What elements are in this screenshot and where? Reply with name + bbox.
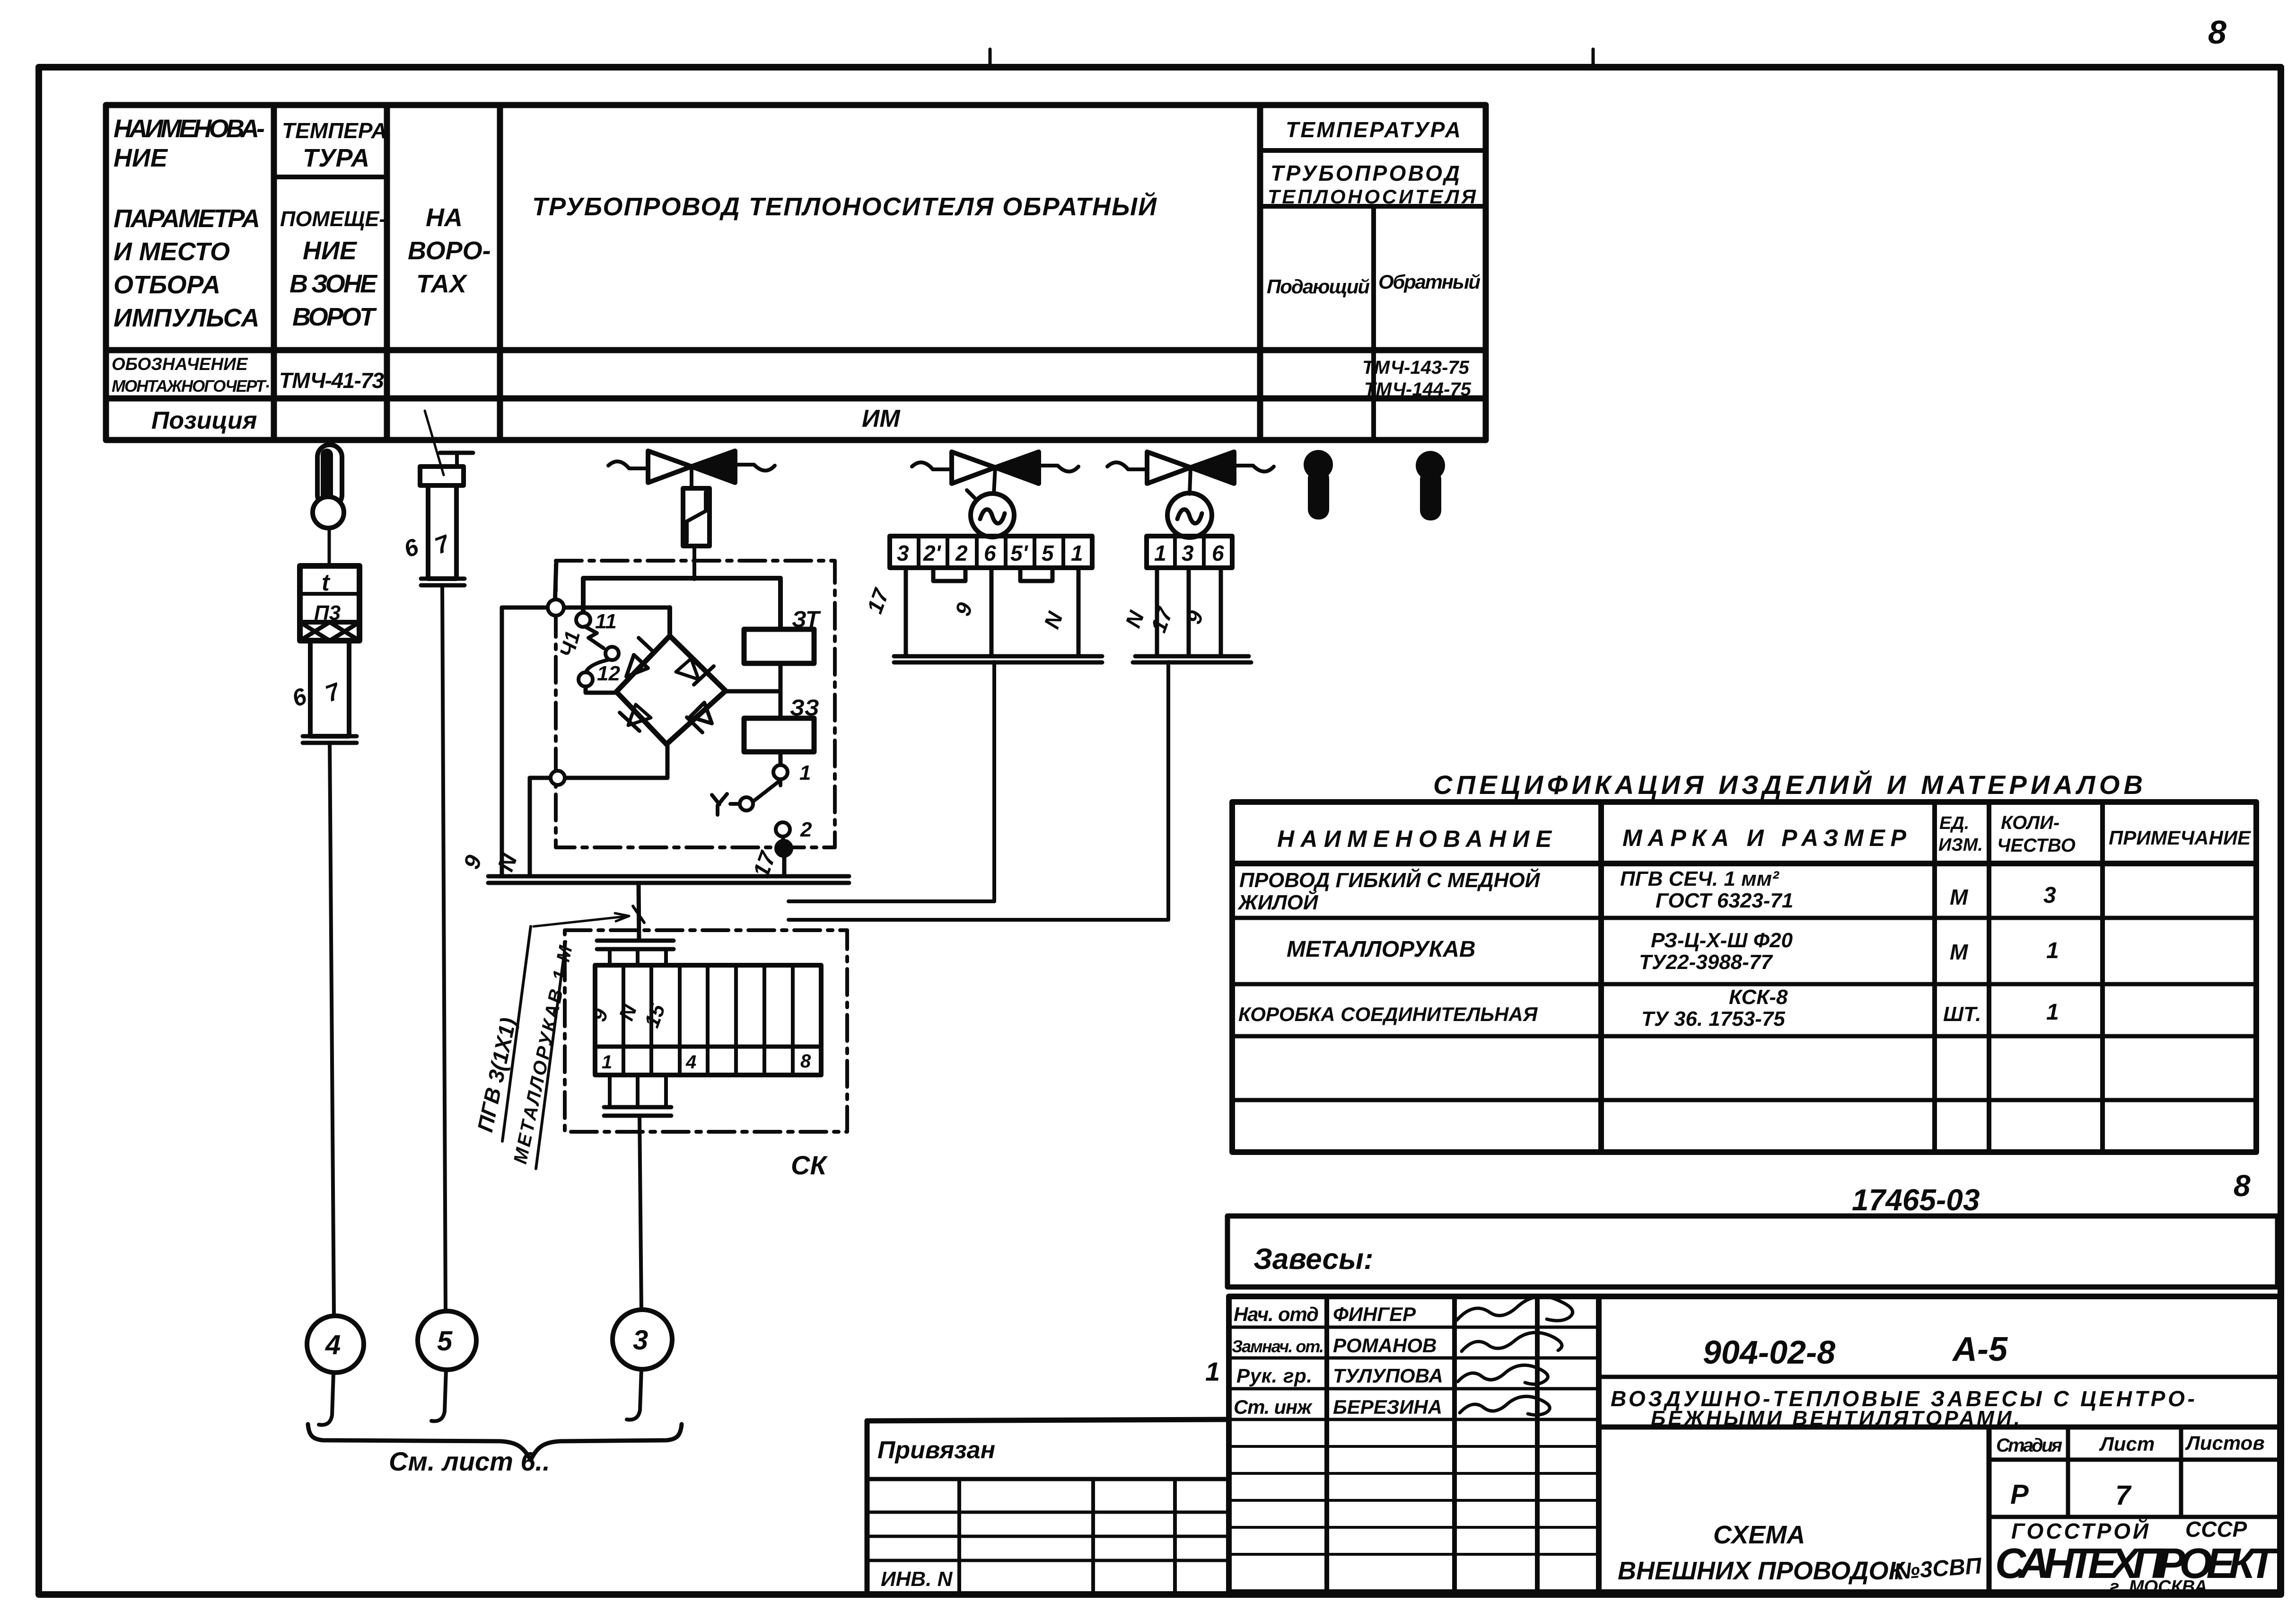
svg-text:1: 1 bbox=[799, 761, 811, 784]
svg-text:6: 6 bbox=[289, 682, 310, 712]
svg-text:РЗ-Ц-Х-Ш Ф20: РЗ-Ц-Х-Ш Ф20 bbox=[1651, 929, 1793, 952]
svg-text:1: 1 bbox=[1205, 1357, 1220, 1386]
svg-text:ГОСТ 6323-71: ГОСТ 6323-71 bbox=[1656, 889, 1793, 912]
svg-text:КСК-8: КСК-8 bbox=[1729, 986, 1788, 1009]
svg-text:3: 3 bbox=[1182, 541, 1194, 565]
svg-text:2': 2' bbox=[923, 541, 942, 565]
svg-text:МЕТАЛЛОРУКАВ: МЕТАЛЛОРУКАВ bbox=[1287, 937, 1476, 962]
svg-text:Ч1: Ч1 bbox=[555, 628, 585, 660]
svg-text:904-02-8: 904-02-8 bbox=[1703, 1334, 1835, 1371]
svg-text:9: 9 bbox=[459, 852, 487, 872]
svg-text:3: 3 bbox=[2043, 883, 2056, 908]
svg-text:Подающий: Подающий bbox=[1267, 275, 1370, 298]
svg-text:ТМЧ-41-73: ТМЧ-41-73 bbox=[279, 368, 384, 393]
svg-text:КОРОБКА СОЕДИНИТЕЛЬНАЯ: КОРОБКА СОЕДИНИТЕЛЬНАЯ bbox=[1238, 1003, 1538, 1025]
svg-text:ЖИЛОЙ: ЖИЛОЙ bbox=[1237, 890, 1319, 914]
svg-text:3: 3 bbox=[633, 1325, 648, 1356]
svg-text:1: 1 bbox=[2046, 1000, 2059, 1025]
svg-text:Обратный: Обратный bbox=[1378, 271, 1481, 293]
svg-text:НИЕ: НИЕ bbox=[303, 237, 358, 265]
svg-text:ИНВ. N: ИНВ. N bbox=[881, 1568, 953, 1591]
svg-text:Листов: Листов bbox=[2185, 1432, 2265, 1454]
svg-text:ВОРОТ: ВОРОТ bbox=[292, 303, 377, 331]
svg-text:Р: Р bbox=[2010, 1479, 2029, 1510]
svg-text:ТМЧ-143-75: ТМЧ-143-75 bbox=[1362, 357, 1470, 378]
svg-text:ПРОВОД ГИБКИЙ С МЕДНОЙ: ПРОВОД ГИБКИЙ С МЕДНОЙ bbox=[1239, 868, 1541, 892]
svg-text:5': 5' bbox=[1010, 541, 1029, 565]
svg-text:1: 1 bbox=[1154, 541, 1166, 565]
svg-text:2: 2 bbox=[955, 541, 968, 565]
svg-text:7: 7 bbox=[322, 678, 344, 707]
svg-text:5: 5 bbox=[437, 1326, 453, 1357]
svg-text:ВОРО-: ВОРО- bbox=[408, 237, 491, 265]
svg-text:N: N bbox=[1121, 608, 1149, 631]
svg-text:15: 15 bbox=[640, 1001, 670, 1031]
svg-text:Рук. гр.: Рук. гр. bbox=[1236, 1365, 1312, 1387]
svg-text:СХЕМА: СХЕМА bbox=[1713, 1521, 1805, 1549]
svg-text:г. МОСКВА: г. МОСКВА bbox=[2110, 1577, 2207, 1597]
svg-text:СССР: СССР bbox=[2185, 1517, 2247, 1542]
svg-text:НИЕ: НИЕ bbox=[114, 144, 168, 172]
svg-text:6: 6 bbox=[1212, 541, 1224, 565]
svg-text:М: М bbox=[1950, 885, 1969, 909]
svg-text:ИМПУЛЬСА: ИМПУЛЬСА bbox=[114, 304, 259, 332]
svg-text:БЕРЕЗИНА: БЕРЕЗИНА bbox=[1333, 1396, 1442, 1418]
svg-text:ТАХ: ТАХ bbox=[416, 270, 468, 298]
svg-text:17465-03: 17465-03 bbox=[1852, 1183, 1980, 1217]
svg-text:ТРУБОПРОВОД ТЕПЛОНОСИТЕЛЯ ОБРА: ТРУБОПРОВОД ТЕПЛОНОСИТЕЛЯ ОБРАТНЫЙ bbox=[532, 192, 1157, 221]
svg-text:МОНТАЖНОГОЧЕРТ·: МОНТАЖНОГОЧЕРТ· bbox=[112, 377, 270, 396]
svg-text:ТУЛУПОВА: ТУЛУПОВА bbox=[1333, 1365, 1443, 1387]
svg-text:7: 7 bbox=[431, 529, 454, 559]
svg-text:11: 11 bbox=[595, 610, 617, 633]
svg-text:И МЕСТО: И МЕСТО bbox=[114, 238, 230, 266]
svg-text:М: М bbox=[1950, 940, 1969, 964]
svg-text:БЕЖНЫМИ ВЕНТИЛЯТОРАМИ.: БЕЖНЫМИ ВЕНТИЛЯТОРАМИ. bbox=[1651, 1407, 2020, 1430]
svg-text:N: N bbox=[1039, 608, 1068, 632]
svg-text:МАРКА И РАЗМЕР: МАРКА И РАЗМЕР bbox=[1622, 825, 1907, 851]
svg-text:Лист: Лист bbox=[2099, 1433, 2155, 1455]
svg-text:СПЕЦИФИКАЦИЯ ИЗДЕЛИЙ И МАТЕ: СПЕЦИФИКАЦИЯ ИЗДЕЛИЙ И МАТЕРИАЛОВ bbox=[1433, 770, 2143, 800]
svg-text:НА: НА bbox=[426, 203, 463, 232]
svg-text:Ст. инж: Ст. инж bbox=[1234, 1396, 1313, 1418]
svg-text:Замнач. от.: Замнач. от. bbox=[1232, 1337, 1324, 1356]
svg-text:ЧЕСТВО: ЧЕСТВО bbox=[1997, 835, 2076, 856]
svg-text:ПОМЕЩЕ-: ПОМЕЩЕ- bbox=[280, 207, 386, 231]
svg-text:6: 6 bbox=[401, 533, 422, 563]
svg-text:4: 4 bbox=[325, 1330, 341, 1360]
svg-text:N: N bbox=[493, 850, 523, 875]
svg-text:ПАРАМЕТРА: ПАРАМЕТРА bbox=[114, 204, 260, 233]
svg-text:2: 2 bbox=[800, 818, 812, 841]
svg-text:КОЛИ-: КОЛИ- bbox=[2001, 812, 2059, 833]
svg-text:9: 9 bbox=[1181, 607, 1209, 627]
svg-text:№3СВП: №3СВП bbox=[1893, 1553, 1983, 1585]
svg-text:ФИНГЕР: ФИНГЕР bbox=[1333, 1303, 1416, 1325]
svg-text:П3: П3 bbox=[314, 601, 341, 625]
svg-text:ТЕМПЕРАТУРА: ТЕМПЕРАТУРА bbox=[1286, 117, 1461, 142]
svg-text:Нач. отд: Нач. отд bbox=[1234, 1303, 1319, 1325]
svg-text:12: 12 bbox=[597, 662, 620, 685]
svg-text:8: 8 bbox=[2234, 1169, 2251, 1203]
svg-text:ТУ22-3988-77: ТУ22-3988-77 bbox=[1639, 951, 1773, 974]
svg-text:8: 8 bbox=[800, 1051, 811, 1072]
svg-text:РОМАНОВ: РОМАНОВ bbox=[1333, 1334, 1437, 1357]
svg-text:ШТ.: ШТ. bbox=[1943, 1003, 1981, 1026]
svg-text:9: 9 bbox=[950, 599, 978, 619]
svg-text:ИМ: ИМ bbox=[862, 405, 901, 432]
svg-text:См. лист 6..: См. лист 6.. bbox=[389, 1446, 550, 1476]
svg-text:Позиция: Позиция bbox=[151, 407, 257, 434]
svg-text:9: 9 bbox=[587, 1005, 613, 1024]
svg-text:7: 7 bbox=[2115, 1480, 2132, 1511]
svg-text:ВНЕШНИХ ПРОВОДОК: ВНЕШНИХ ПРОВОДОК bbox=[1618, 1557, 1906, 1585]
svg-text:1: 1 bbox=[2046, 938, 2059, 963]
svg-text:ТУРА: ТУРА bbox=[303, 144, 369, 172]
svg-text:СК: СК bbox=[791, 1150, 828, 1180]
svg-text:ТЕПЛОНОСИТЕЛЯ: ТЕПЛОНОСИТЕЛЯ bbox=[1268, 185, 1476, 208]
svg-text:Привязан: Привязан bbox=[877, 1436, 995, 1464]
svg-text:ПГВ СЕЧ. 1 мм²: ПГВ СЕЧ. 1 мм² bbox=[1620, 867, 1779, 890]
svg-text:17: 17 bbox=[1146, 603, 1178, 635]
svg-text:НАИМЕНОВА-: НАИМЕНОВА- bbox=[114, 115, 265, 143]
svg-text:3: 3 bbox=[897, 541, 909, 565]
svg-text:4: 4 bbox=[685, 1052, 696, 1073]
svg-text:ЕД.: ЕД. bbox=[1939, 813, 1969, 833]
svg-text:1: 1 bbox=[602, 1052, 612, 1073]
svg-text:ЗЗ: ЗЗ bbox=[790, 696, 819, 721]
svg-text:17: 17 bbox=[862, 584, 894, 617]
svg-text:ТМЧ-144-75: ТМЧ-144-75 bbox=[1364, 379, 1472, 400]
svg-text:ПРИМЕЧАНИЕ: ПРИМЕЧАНИЕ bbox=[2109, 827, 2252, 849]
svg-text:ТРУБОПРОВОД: ТРУБОПРОВОД bbox=[1271, 161, 1460, 185]
svg-text:ПГВ 3(1Х1): ПГВ 3(1Х1) bbox=[473, 1015, 521, 1134]
svg-text:НАИМЕНОВАНИЕ: НАИМЕНОВАНИЕ bbox=[1277, 826, 1552, 852]
svg-text:ОТБОРА: ОТБОРА bbox=[114, 271, 220, 299]
svg-text:t: t bbox=[322, 569, 331, 596]
svg-text:А-5: А-5 bbox=[1952, 1330, 2008, 1368]
svg-text:8: 8 bbox=[2208, 14, 2226, 51]
svg-text:5: 5 bbox=[1042, 541, 1054, 565]
svg-text:1: 1 bbox=[1071, 541, 1083, 565]
svg-text:Завесы:: Завесы: bbox=[1253, 1243, 1374, 1276]
svg-text:ОБОЗНАЧЕНИЕ: ОБОЗНАЧЕНИЕ bbox=[112, 354, 248, 374]
svg-text:ИЗМ.: ИЗМ. bbox=[1938, 835, 1983, 855]
svg-text:ЗТ: ЗТ bbox=[792, 607, 821, 632]
svg-text:В ЗОНЕ: В ЗОНЕ bbox=[289, 270, 378, 298]
svg-text:Стадия: Стадия bbox=[1996, 1435, 2062, 1456]
svg-text:N: N bbox=[614, 1001, 641, 1024]
svg-text:ТЕМПЕРА: ТЕМПЕРА bbox=[282, 118, 387, 143]
svg-text:6: 6 bbox=[984, 541, 996, 565]
svg-text:ТУ 36. 1753-75: ТУ 36. 1753-75 bbox=[1641, 1007, 1785, 1031]
